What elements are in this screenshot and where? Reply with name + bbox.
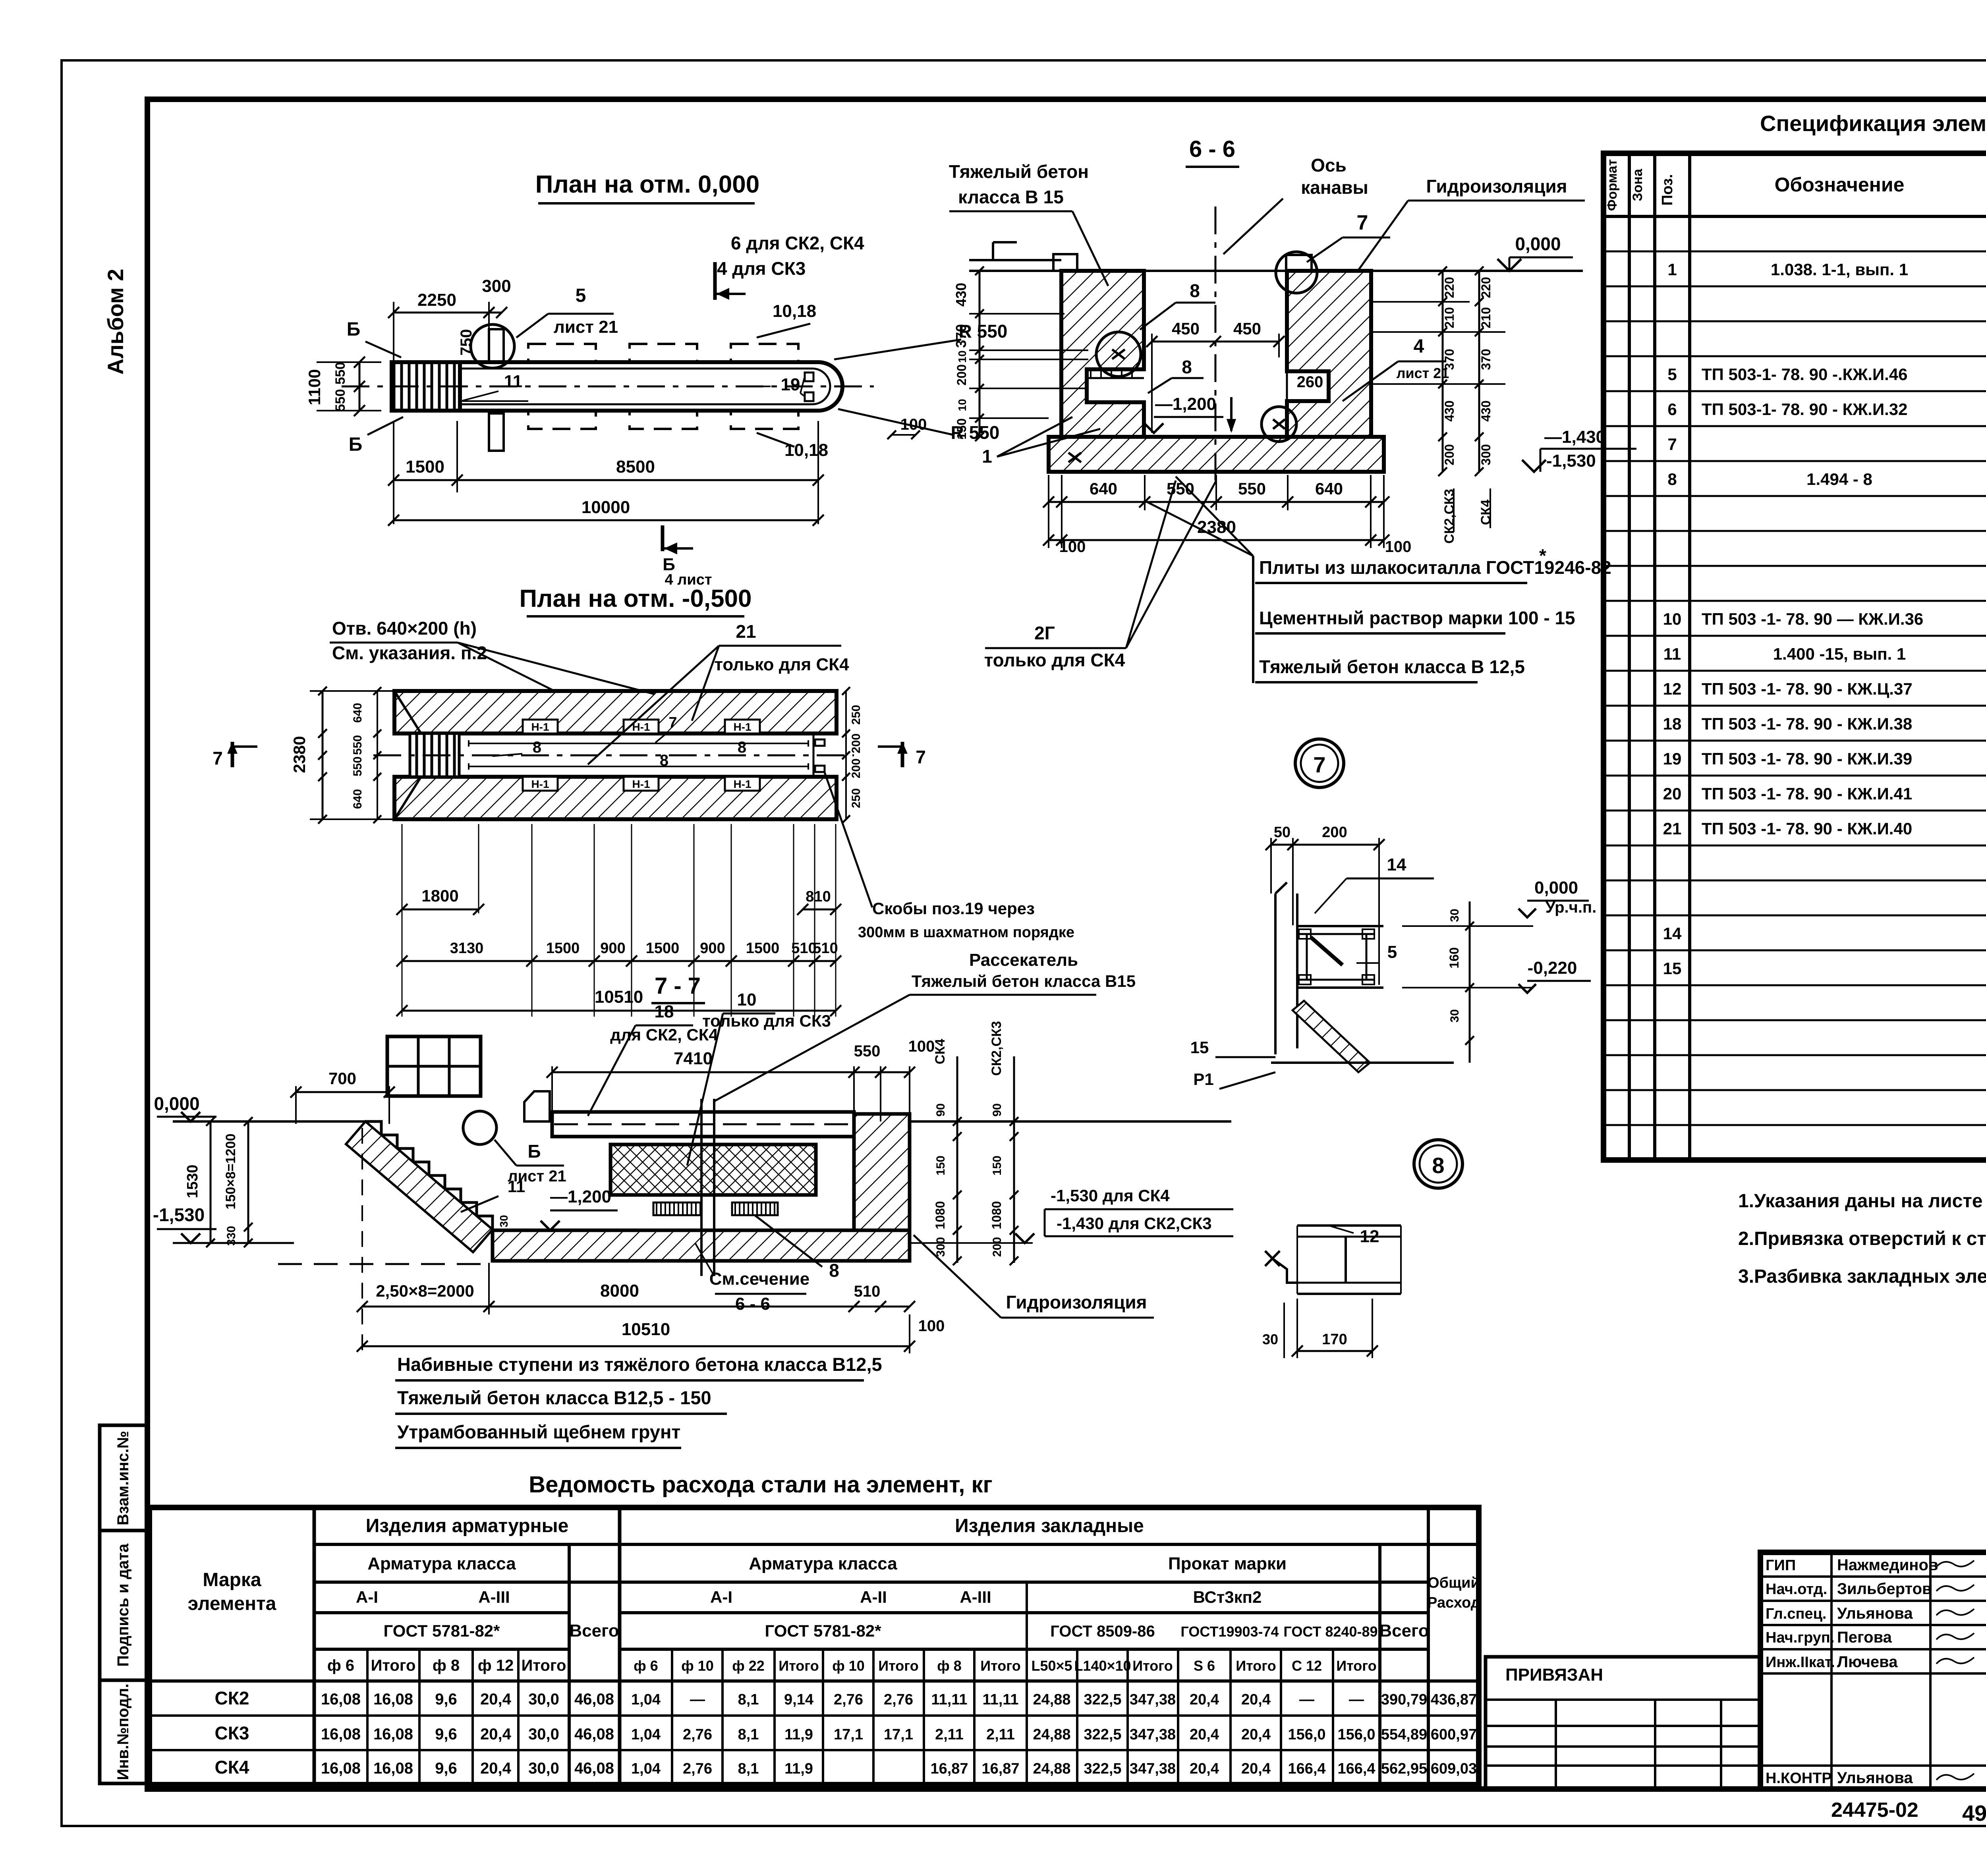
- svg-text:300: 300: [1479, 444, 1493, 465]
- svg-text:—1,200: —1,200: [1155, 394, 1216, 414]
- svg-text:640: 640: [1090, 479, 1117, 498]
- svg-text:1,04: 1,04: [631, 1726, 661, 1743]
- svg-text:12: 12: [1360, 1227, 1379, 1246]
- svg-text:562,95: 562,95: [1381, 1760, 1427, 1777]
- svg-text:300: 300: [934, 1237, 947, 1257]
- svg-text:4: 4: [1414, 336, 1424, 357]
- floor left of wall: [969, 259, 1061, 261]
- svg-text:СК2,СК3: СК2,СК3: [989, 1021, 1004, 1076]
- svg-text:609,03: 609,03: [1431, 1760, 1477, 1777]
- svg-text:11,9: 11,9: [784, 1760, 813, 1777]
- svg-text:Тяжелый бетон класса В 12,5: Тяжелый бетон класса В 12,5: [1259, 656, 1525, 677]
- svg-text:450: 450: [1233, 319, 1261, 338]
- svg-text:Зильбертов: Зильбертов: [1837, 1580, 1932, 1598]
- plan 0.000 dashed niches bottom: [528, 411, 596, 429]
- svg-text:Н-1: Н-1: [531, 721, 549, 733]
- svg-text:19: 19: [781, 375, 800, 394]
- svg-text:ТП 503 -1- 78. 90 - КЖ.И.40: ТП 503 -1- 78. 90 - КЖ.И.40: [1702, 819, 1912, 838]
- plan -0.500 left dims: [322, 691, 324, 819]
- svg-text:7: 7: [1313, 752, 1325, 777]
- plan 0.000 rounded end: [818, 362, 842, 411]
- svg-text:1530: 1530: [184, 1165, 201, 1199]
- svg-text:Расход: Расход: [1427, 1594, 1480, 1611]
- svg-text:30: 30: [1262, 1331, 1278, 1347]
- dim 700: [296, 1091, 389, 1093]
- svg-text:49: 49: [1962, 1801, 1986, 1826]
- svg-text:347,38: 347,38: [1130, 1726, 1176, 1743]
- svg-text:16,08: 16,08: [321, 1760, 361, 1777]
- svg-text:24475-02: 24475-02: [1831, 1799, 1918, 1822]
- svg-text:СК4: СК4: [933, 1039, 948, 1064]
- svg-text:1.Указания даны на листе 1: 1.Указания даны на листе 17.: [1738, 1191, 1986, 1212]
- svg-text:8: 8: [829, 1260, 839, 1281]
- detail circles section 6-6: [1096, 332, 1141, 376]
- left wall: [1061, 271, 1144, 437]
- svg-text:2,76: 2,76: [834, 1691, 863, 1708]
- plan 0.000 detail circle: [471, 324, 514, 368]
- svg-text:Ось: Ось: [1311, 155, 1347, 176]
- plan -0.500 top wall band: [394, 691, 837, 733]
- svg-text:Подпись и дата: Подпись и дата: [114, 1543, 132, 1667]
- svg-text:300мм в шахматном порядке: 300мм в шахматном порядке: [858, 924, 1074, 941]
- svg-text:90: 90: [934, 1103, 947, 1116]
- svg-text:2,76: 2,76: [884, 1691, 913, 1708]
- svg-text:510: 510: [813, 940, 838, 957]
- svg-text:20,4: 20,4: [480, 1691, 512, 1708]
- node 7 hatch strip: [1292, 1001, 1370, 1072]
- svg-text:СК4: СК4: [215, 1757, 249, 1778]
- svg-text:ТП 503 -1- 78. 90 - КЖ.И.39: ТП 503 -1- 78. 90 - КЖ.И.39: [1702, 749, 1912, 768]
- ground line right: [910, 1120, 1231, 1123]
- svg-text:Альбом 2: Альбом 2: [103, 269, 128, 375]
- svg-text:—: —: [690, 1691, 705, 1708]
- svg-text:Тяжелый бетон класса В12,5: Тяжелый бетон класса В12,5 - 150: [397, 1387, 711, 1408]
- svg-text:220: 220: [1442, 277, 1457, 298]
- svg-text:6 - 6: 6 - 6: [735, 1294, 770, 1314]
- svg-text:7: 7: [916, 747, 926, 767]
- svg-text:10: 10: [737, 990, 757, 1009]
- svg-text:ПРИВЯЗАН: ПРИВЯЗАН: [1505, 1665, 1603, 1685]
- svg-text:—1,430: —1,430: [1544, 427, 1605, 447]
- svg-text:1.038. 1-1, вып. 1: 1.038. 1-1, вып. 1: [1771, 260, 1908, 279]
- svg-text:Лючева: Лючева: [1837, 1653, 1898, 1671]
- svg-text:ГОСТ 8240-89: ГОСТ 8240-89: [1283, 1623, 1377, 1640]
- right dim cols 7-7: [956, 1056, 958, 1263]
- svg-text:L50×5: L50×5: [1031, 1658, 1072, 1674]
- excavation dashed bottom: [278, 1263, 493, 1265]
- svg-text:10: 10: [956, 350, 968, 363]
- svg-text:7: 7: [1667, 435, 1677, 454]
- plan 0.000 air shaft bars: [489, 329, 504, 362]
- svg-text:1,04: 1,04: [631, 1691, 661, 1708]
- svg-text:лист 21: лист 21: [1397, 365, 1449, 381]
- svg-text:550: 550: [351, 735, 364, 755]
- node 8 dims: [1297, 1350, 1372, 1352]
- svg-text:СК2: СК2: [215, 1688, 249, 1708]
- betonny upor: [524, 1091, 550, 1121]
- svg-text:СК4: СК4: [1478, 500, 1493, 525]
- svg-text:640: 640: [1315, 479, 1343, 498]
- svg-text:Тяжелый бетон класса В15: Тяжелый бетон класса В15: [912, 972, 1136, 990]
- svg-text:10000: 10000: [582, 498, 630, 517]
- plan -0.500 niches H-1: [523, 720, 558, 733]
- svg-text:900: 900: [600, 940, 625, 957]
- svg-text:9,6: 9,6: [435, 1725, 457, 1743]
- svg-text:ВСт3кп2: ВСт3кп2: [1193, 1588, 1262, 1606]
- svg-text:2380: 2380: [290, 736, 309, 773]
- svg-text:166,4: 166,4: [1337, 1760, 1375, 1777]
- section 6-6 right dim cols: [1442, 271, 1444, 472]
- svg-text:План на отм. 0,000: План на отм. 0,000: [535, 171, 759, 198]
- svg-text:Формат: Формат: [1605, 159, 1620, 211]
- svg-text:Итого: Итого: [371, 1657, 416, 1674]
- svg-text:300: 300: [482, 276, 511, 296]
- svg-text:-1,530: -1,530: [153, 1204, 205, 1225]
- svg-text:1100: 1100: [305, 369, 324, 405]
- svg-text:11: 11: [1663, 645, 1681, 663]
- svg-text:8: 8: [1182, 357, 1192, 377]
- svg-text:21: 21: [1663, 819, 1682, 838]
- svg-text:550: 550: [333, 389, 348, 412]
- svg-text:Инж.IIкат.: Инж.IIкат.: [1766, 1654, 1835, 1671]
- svg-text:7: 7: [668, 714, 677, 731]
- svg-text:15: 15: [1190, 1038, 1209, 1057]
- svg-text:20,4: 20,4: [1190, 1726, 1219, 1743]
- svg-text:3130: 3130: [450, 940, 484, 957]
- svg-text:100: 100: [908, 1038, 935, 1055]
- svg-text:10: 10: [1663, 610, 1682, 628]
- svg-text:ф 10: ф 10: [681, 1658, 714, 1674]
- svg-text:Итого: Итого: [878, 1658, 919, 1674]
- svg-text:Б: Б: [527, 1141, 541, 1162]
- svg-text:18: 18: [655, 1002, 674, 1021]
- svg-text:160: 160: [1447, 947, 1461, 968]
- svg-text:7: 7: [213, 748, 223, 768]
- svg-text:Общий: Общий: [1428, 1575, 1480, 1591]
- svg-text:8,1: 8,1: [738, 1760, 759, 1777]
- svg-text:20: 20: [1663, 784, 1682, 803]
- plan 0.000 bottom dims: [394, 479, 818, 481]
- ground line left: [173, 1120, 365, 1123]
- svg-text:ТП 503-1- 78. 90 -.КЖ.И.46: ТП 503-1- 78. 90 -.КЖ.И.46: [1702, 365, 1908, 384]
- svg-text:0,000: 0,000: [1515, 234, 1561, 254]
- svg-text:А-II: А-II: [860, 1588, 887, 1606]
- svg-text:Изделия арматурные: Изделия арматурные: [366, 1515, 569, 1536]
- svg-text:10510: 10510: [622, 1320, 670, 1339]
- svg-text:640: 640: [351, 789, 364, 809]
- dim 450 450: [1152, 341, 1279, 343]
- svg-text:210: 210: [1479, 307, 1493, 328]
- svg-text:1.494 - 8: 1.494 - 8: [1806, 470, 1872, 488]
- svg-text:20,4: 20,4: [1190, 1760, 1219, 1777]
- specification table: [1603, 153, 1986, 1160]
- svg-text:—: —: [1299, 1691, 1314, 1708]
- svg-text:20,4: 20,4: [1190, 1691, 1219, 1708]
- svg-text:А-I: А-I: [356, 1588, 378, 1606]
- svg-text:3.Разбивка закладных элементов: 3.Разбивка закладных элементов в нише Н-…: [1738, 1266, 1986, 1287]
- bottom slab: [1049, 437, 1384, 472]
- svg-text:156,0: 156,0: [1288, 1726, 1325, 1743]
- svg-text:Плиты из шлакоситалла ГОСТ19: Плиты из шлакоситалла ГОСТ19246-82: [1259, 557, 1611, 578]
- svg-text:1,04: 1,04: [631, 1760, 661, 1777]
- title block signature table: [1760, 1552, 1986, 1789]
- svg-text:170: 170: [1322, 1331, 1347, 1348]
- svg-text:322,5: 322,5: [1084, 1760, 1121, 1777]
- svg-text:Обозначение: Обозначение: [1775, 174, 1905, 196]
- svg-text:Н-1: Н-1: [733, 778, 751, 790]
- svg-text:Всего: Всего: [1379, 1621, 1429, 1641]
- svg-text:Б: Б: [349, 434, 363, 455]
- svg-text:100: 100: [900, 416, 927, 433]
- svg-text:450: 450: [1172, 319, 1200, 338]
- svg-text:-0,220: -0,220: [1528, 958, 1577, 978]
- svg-text:Скобы поз.19 через: Скобы поз.19 через: [872, 899, 1035, 918]
- svg-text:46,08: 46,08: [574, 1760, 614, 1777]
- svg-text:-1,430 для СК2,СК3: -1,430 для СК2,СК3: [1057, 1214, 1212, 1233]
- plan -0.500 bottom wall band: [394, 777, 837, 819]
- svg-text:Отв. 640×200 (h): Отв. 640×200 (h): [332, 618, 477, 639]
- svg-text:156,0: 156,0: [1337, 1726, 1375, 1743]
- svg-text:200: 200: [850, 733, 863, 753]
- svg-text:Рассекатель: Рассекатель: [969, 950, 1078, 970]
- svg-text:1: 1: [982, 446, 992, 467]
- svg-text:L140×10: L140×10: [1074, 1658, 1131, 1674]
- svg-text:15: 15: [1663, 959, 1682, 978]
- top slab right part: [552, 1112, 854, 1137]
- plan -0.500 stair block: [410, 733, 459, 777]
- skoby squares: [805, 372, 813, 381]
- svg-text:46,08: 46,08: [574, 1725, 614, 1743]
- svg-text:ГИП: ГИП: [1766, 1557, 1796, 1574]
- svg-text:ТП 503 -1- 78. 90 — КЖ.И.36: ТП 503 -1- 78. 90 — КЖ.И.36: [1702, 610, 1923, 628]
- svg-text:2,11: 2,11: [935, 1726, 964, 1743]
- svg-text:46,08: 46,08: [574, 1691, 614, 1708]
- svg-text:166,4: 166,4: [1288, 1760, 1325, 1777]
- svg-text:550: 550: [854, 1042, 881, 1060]
- node 8 circle: [1414, 1140, 1462, 1188]
- canal floor slab: [493, 1230, 910, 1261]
- svg-text:Арматура класса: Арматура класса: [749, 1554, 897, 1573]
- svg-text:См.сечение: См.сечение: [709, 1269, 810, 1289]
- svg-text:370: 370: [1479, 349, 1493, 370]
- svg-text:200: 200: [991, 1237, 1004, 1257]
- svg-text:C 12: C 12: [1292, 1658, 1322, 1674]
- svg-text:*: *: [1539, 545, 1546, 566]
- svg-text:370: 370: [953, 324, 969, 348]
- svg-text:220: 220: [1479, 277, 1493, 298]
- svg-text:17,1: 17,1: [834, 1726, 863, 1743]
- svg-text:0,000: 0,000: [154, 1093, 199, 1114]
- svg-text:436,87: 436,87: [1431, 1691, 1477, 1708]
- svg-text:30,0: 30,0: [528, 1760, 559, 1777]
- svg-text:640: 640: [351, 703, 364, 723]
- svg-text:ТП 503 -1- 78. 90 - КЖ.И.38: ТП 503 -1- 78. 90 - КЖ.И.38: [1702, 714, 1912, 733]
- svg-text:16,08: 16,08: [321, 1725, 361, 1743]
- svg-text:1: 1: [1667, 260, 1677, 279]
- svg-text:1.400 -15, вып. 1: 1.400 -15, вып. 1: [1773, 645, 1906, 663]
- plan 0.000 centerline: [342, 386, 874, 388]
- svg-text:ГОСТ19903-74: ГОСТ19903-74: [1180, 1623, 1279, 1640]
- fence grid box: [387, 1036, 481, 1096]
- svg-text:9,6: 9,6: [435, 1691, 457, 1708]
- svg-text:900: 900: [700, 940, 725, 957]
- svg-text:19: 19: [1663, 749, 1682, 768]
- svg-text:16,08: 16,08: [373, 1725, 413, 1743]
- svg-text:200: 200: [1322, 824, 1347, 841]
- plan 0.000 top dims: [394, 312, 502, 314]
- svg-text:210: 210: [1442, 307, 1457, 328]
- svg-text:0,000: 0,000: [1534, 878, 1578, 897]
- svg-text:-1,530 для СК4: -1,530 для СК4: [1051, 1186, 1170, 1205]
- svg-text:Гидроизоляция: Гидроизоляция: [1006, 1292, 1147, 1312]
- right wall hatched: [854, 1114, 910, 1230]
- svg-text:30: 30: [1448, 1009, 1461, 1022]
- svg-text:10,18: 10,18: [773, 301, 816, 321]
- svg-text:9,14: 9,14: [784, 1691, 813, 1708]
- svg-text:лист 21: лист 21: [554, 317, 618, 337]
- svg-text:ф 8: ф 8: [433, 1657, 460, 1674]
- svg-text:24,88: 24,88: [1033, 1726, 1070, 1743]
- svg-text:СК3: СК3: [215, 1723, 249, 1743]
- svg-text:2Г: 2Г: [1034, 623, 1055, 643]
- svg-text:Итого: Итого: [1236, 1658, 1276, 1674]
- svg-text:8: 8: [660, 752, 668, 769]
- svg-text:Итого: Итого: [1132, 1658, 1173, 1674]
- node 7 detail: [1271, 844, 1379, 846]
- svg-text:ТП 503-1- 78. 90 - КЖ.И.32: ТП 503-1- 78. 90 - КЖ.И.32: [1702, 400, 1908, 419]
- svg-text:24,88: 24,88: [1033, 1691, 1070, 1708]
- svg-text:810: 810: [806, 888, 831, 905]
- svg-text:10,18: 10,18: [784, 440, 828, 460]
- svg-text:СК2,СК3: СК2,СК3: [1442, 489, 1457, 544]
- svg-text:30: 30: [1448, 909, 1461, 922]
- svg-text:250: 250: [850, 705, 863, 725]
- svg-text:1080: 1080: [989, 1201, 1004, 1229]
- niche plate lines left: [1087, 377, 1144, 379]
- svg-text:Изделия закладные: Изделия закладные: [955, 1515, 1144, 1536]
- svg-text:2,76: 2,76: [683, 1726, 712, 1743]
- svg-text:Марка: Марка: [203, 1569, 261, 1590]
- section 6-6 left dims: [979, 271, 981, 437]
- skoby squares: [815, 739, 825, 746]
- svg-text:Итого: Итого: [1336, 1658, 1377, 1674]
- steel table: [149, 1507, 1479, 1785]
- svg-text:9,6: 9,6: [435, 1760, 457, 1777]
- svg-text:ф 6: ф 6: [634, 1658, 658, 1674]
- svg-text:11: 11: [508, 1177, 525, 1196]
- svg-text:Пегова: Пегова: [1837, 1629, 1892, 1646]
- svg-text:20,4: 20,4: [1241, 1691, 1271, 1708]
- svg-text:10: 10: [956, 399, 968, 411]
- svg-text:Н.КОНТР.: Н.КОНТР.: [1766, 1770, 1834, 1787]
- svg-text:12: 12: [1663, 679, 1682, 698]
- svg-text:16,87: 16,87: [930, 1760, 968, 1777]
- svg-text:510: 510: [854, 1283, 881, 1300]
- svg-text:Поз.: Поз.: [1659, 174, 1676, 205]
- svg-text:11: 11: [504, 372, 523, 391]
- wall top blocks: [1053, 254, 1077, 271]
- svg-text:S 6: S 6: [1194, 1658, 1215, 1674]
- svg-text:Нач.отд.: Нач.отд.: [1766, 1581, 1827, 1598]
- svg-text:16,08: 16,08: [373, 1691, 413, 1708]
- svg-text:Зона: Зона: [1630, 168, 1645, 201]
- svg-text:20,4: 20,4: [1241, 1726, 1271, 1743]
- svg-text:—1,200: —1,200: [550, 1187, 611, 1206]
- steps: [365, 1121, 493, 1229]
- svg-text:200: 200: [1442, 444, 1457, 465]
- svg-text:Б: Б: [347, 319, 361, 340]
- svg-text:700: 700: [328, 1069, 356, 1088]
- svg-text:8: 8: [1667, 470, 1677, 488]
- node 8 detail: [1297, 1224, 1401, 1227]
- svg-text:6 для СК2, СК4: 6 для СК2, СК4: [731, 233, 864, 253]
- svg-text:Нач.груп.: Нач.груп.: [1766, 1629, 1834, 1646]
- svg-text:Тяжелый бетон: Тяжелый бетон: [949, 161, 1089, 182]
- circle 6 list21: [463, 1111, 496, 1145]
- svg-text:1500: 1500: [546, 940, 580, 957]
- svg-text:100: 100: [1385, 538, 1412, 556]
- svg-text:8: 8: [1432, 1153, 1444, 1178]
- svg-text:Всего: Всего: [569, 1621, 619, 1641]
- svg-text:8000: 8000: [600, 1281, 639, 1301]
- plan -0.500 left end diagonals: [394, 691, 421, 733]
- svg-text:30,0: 30,0: [528, 1725, 559, 1743]
- svg-text:—: —: [1349, 1691, 1364, 1708]
- svg-text:554,89: 554,89: [1381, 1726, 1427, 1743]
- plan -0.500 rails: [469, 743, 808, 744]
- anchor x marks: [1112, 349, 1125, 359]
- svg-text:14: 14: [1387, 855, 1406, 874]
- svg-text:20,4: 20,4: [480, 1725, 512, 1743]
- svg-text:5: 5: [576, 285, 586, 306]
- svg-text:Итого: Итого: [779, 1658, 819, 1674]
- svg-text:390,79: 390,79: [1381, 1691, 1427, 1708]
- svg-text:90: 90: [991, 1103, 1004, 1116]
- svg-text:100: 100: [918, 1317, 945, 1335]
- svg-text:322,5: 322,5: [1084, 1691, 1121, 1708]
- svg-text:ТП 503 -1- 78. 90 - КЖ.Ц.37: ТП 503 -1- 78. 90 - КЖ.Ц.37: [1702, 679, 1913, 698]
- svg-text:Набивные ступени из тяжёлого: Набивные ступени из тяжёлого бетона клас…: [397, 1354, 882, 1375]
- section 6-6 bottom dims: [1049, 501, 1384, 503]
- svg-text:2,50×8=2000: 2,50×8=2000: [376, 1282, 474, 1300]
- top dims 7410/550/100: [552, 1071, 910, 1073]
- svg-text:17,1: 17,1: [884, 1726, 913, 1743]
- svg-text:1800: 1800: [421, 886, 458, 905]
- svg-text:-1,530: -1,530: [1546, 451, 1596, 471]
- svg-text:21: 21: [736, 621, 756, 642]
- svg-text:100: 100: [1059, 538, 1086, 556]
- svg-text:1500: 1500: [746, 940, 780, 957]
- plan 0.000 dashed niches top: [528, 344, 596, 362]
- svg-text:30,0: 30,0: [528, 1691, 559, 1708]
- svg-text:Взам.инс.№: Взам.инс.№: [114, 1431, 132, 1525]
- svg-text:750: 750: [458, 329, 475, 356]
- plan -0.500 end wall: [813, 733, 815, 777]
- svg-text:2,76: 2,76: [683, 1760, 712, 1777]
- svg-text:2250: 2250: [417, 290, 456, 310]
- svg-text:канавы: канавы: [1301, 177, 1368, 198]
- svg-text:Арматура класса: Арматура класса: [367, 1554, 516, 1573]
- privyazan table: [1486, 1657, 1760, 1789]
- svg-text:7: 7: [1357, 211, 1368, 234]
- svg-text:1500: 1500: [406, 457, 444, 477]
- svg-text:1080: 1080: [933, 1201, 947, 1229]
- svg-text:ф 12: ф 12: [478, 1657, 514, 1674]
- svg-text:550: 550: [333, 362, 348, 385]
- svg-text:ф 8: ф 8: [937, 1658, 962, 1674]
- svg-text:Н-1: Н-1: [531, 778, 549, 790]
- svg-text:7410: 7410: [674, 1049, 713, 1068]
